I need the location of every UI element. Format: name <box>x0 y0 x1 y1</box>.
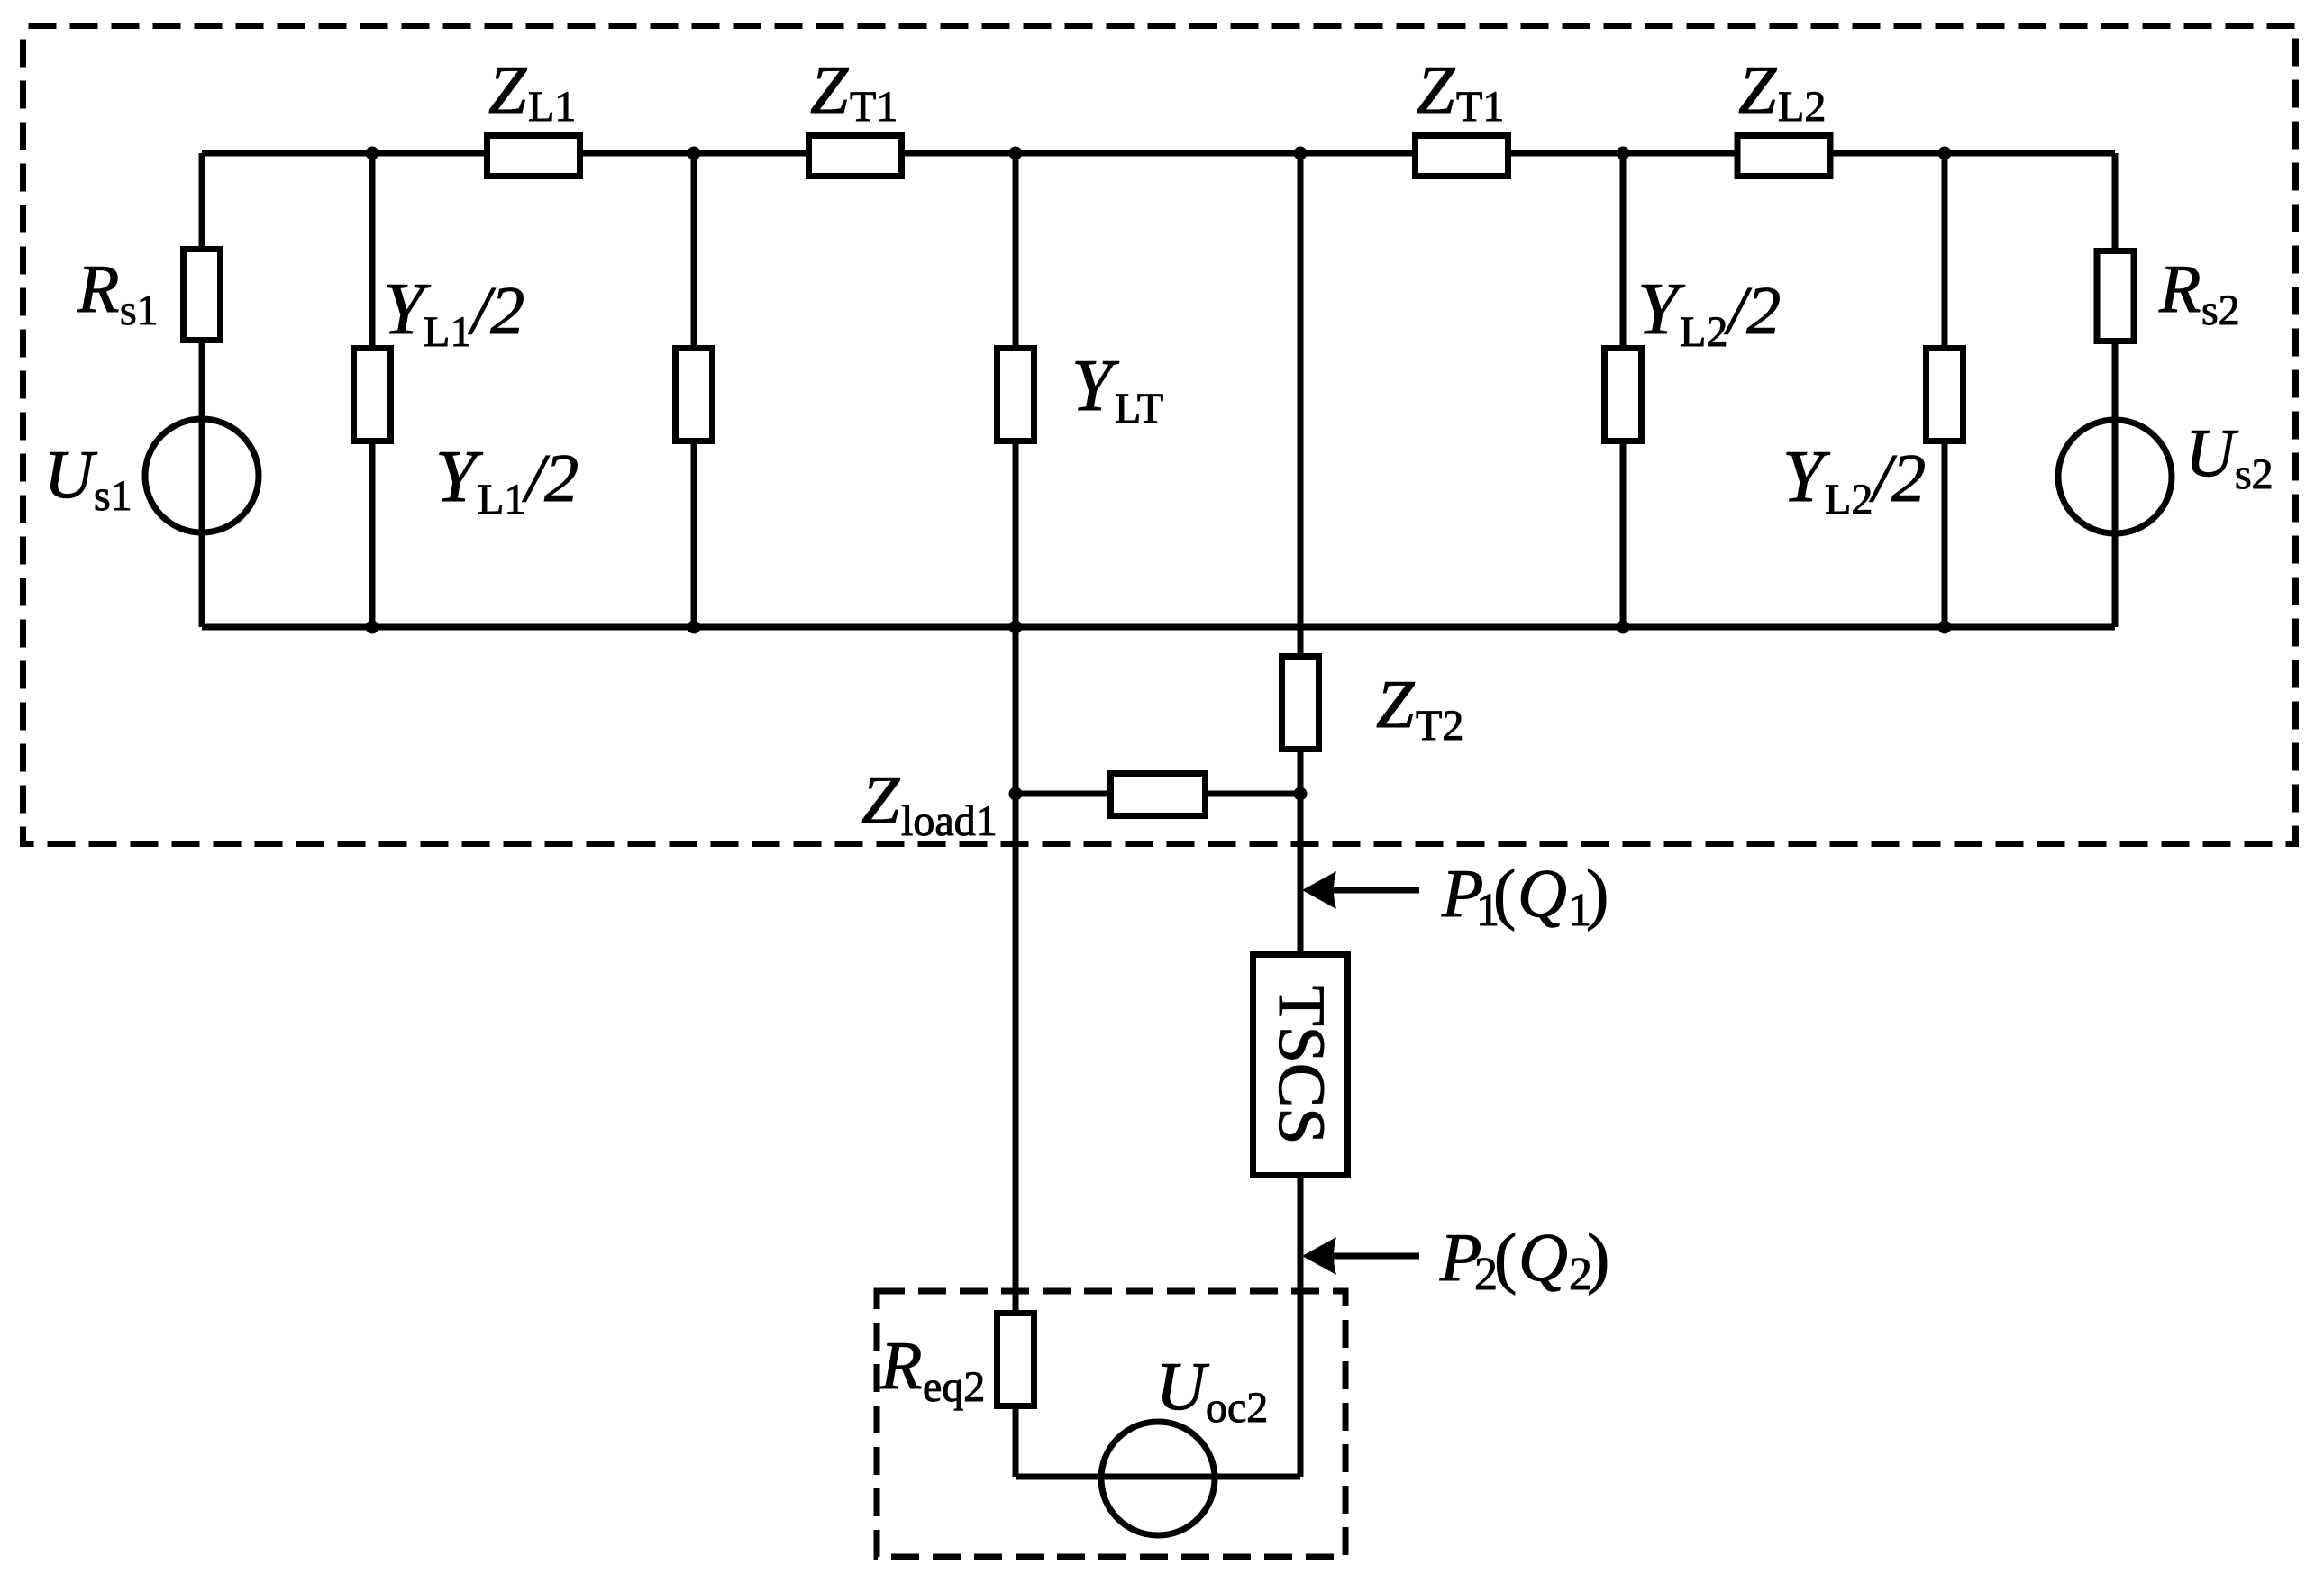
svg-text:s1: s1 <box>94 472 132 520</box>
svg-text:L2: L2 <box>1778 83 1826 131</box>
svg-text:/2: /2 <box>468 273 524 349</box>
svg-text:U: U <box>44 437 97 513</box>
svg-text:T1: T1 <box>850 83 898 131</box>
svg-text:Z: Z <box>1376 667 1415 742</box>
svg-text:Z: Z <box>1417 52 1455 128</box>
svg-text:T1: T1 <box>1456 83 1504 131</box>
svg-text:L1: L1 <box>478 476 525 523</box>
svg-text:Y: Y <box>1782 435 1830 517</box>
svg-text:U: U <box>1156 1349 1209 1424</box>
svg-text:s1: s1 <box>120 287 159 334</box>
svg-text:): ) <box>1586 856 1609 932</box>
svg-text:(: ( <box>1493 856 1516 932</box>
svg-text:L1: L1 <box>424 308 471 356</box>
svg-text:s2: s2 <box>2201 287 2240 334</box>
svg-text:R: R <box>879 1328 922 1404</box>
svg-text:L2: L2 <box>1680 308 1727 356</box>
svg-text:U: U <box>2185 415 2238 491</box>
svg-text:Z: Z <box>488 52 527 128</box>
svg-text:/2: /2 <box>522 441 579 516</box>
svg-text:/2: /2 <box>1724 273 1781 349</box>
svg-text:load1: load1 <box>901 797 998 845</box>
svg-text:Y: Y <box>1637 268 1685 350</box>
svg-text:): ) <box>1587 1220 1609 1296</box>
svg-text:L1: L1 <box>528 83 576 131</box>
svg-text:TSCS: TSCS <box>1264 986 1338 1145</box>
svg-text:(: ( <box>1494 1220 1517 1296</box>
svg-text:eq2: eq2 <box>923 1363 985 1411</box>
svg-text:/2: /2 <box>1869 441 1926 516</box>
svg-text:oc2: oc2 <box>1206 1384 1268 1432</box>
svg-text:Z: Z <box>810 52 849 128</box>
svg-text:LT: LT <box>1115 385 1163 432</box>
svg-text:s2: s2 <box>2235 450 2274 498</box>
svg-text:T2: T2 <box>1416 702 1463 750</box>
svg-text:Z: Z <box>1738 52 1777 128</box>
svg-text:Y: Y <box>435 435 483 517</box>
svg-text:Q: Q <box>1517 856 1567 932</box>
svg-text:Q: Q <box>1518 1220 1568 1296</box>
svg-text:R: R <box>77 251 119 327</box>
svg-text:L2: L2 <box>1825 476 1873 523</box>
svg-text:R: R <box>2158 251 2201 327</box>
svg-text:Y: Y <box>1071 344 1119 426</box>
svg-text:Z: Z <box>861 762 900 838</box>
